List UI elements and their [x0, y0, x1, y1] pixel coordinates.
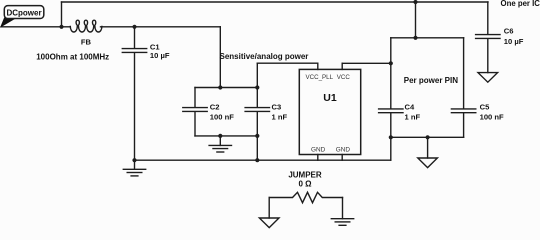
svg-text:JUMPER: JUMPER	[288, 171, 322, 180]
wire: power net from DCpower tail to ferrite bead	[1, 26, 70, 28]
capacitor C3	[256, 63, 258, 107]
svg-text:FB: FB	[81, 37, 92, 46]
svg-text:C1: C1	[150, 42, 160, 51]
svg-text:C5: C5	[480, 102, 490, 111]
svg-text:VCC: VCC	[337, 74, 351, 81]
svg-text:One per IC: One per IC	[501, 0, 540, 8]
capacitor C2	[194, 88, 196, 108]
wire: jumper left leg	[268, 198, 270, 219]
op-amp U1 (IC box)	[299, 69, 360, 154]
svg-text:C6: C6	[504, 27, 514, 36]
wire: riser down to C2/C3 top rail	[219, 27, 221, 88]
svg-text:GND: GND	[311, 147, 326, 154]
ground below C2/C3	[219, 136, 221, 146]
inductor FB	[70, 20, 102, 32]
capacitor C1	[134, 27, 136, 48]
svg-text:Sensitive/analog power: Sensitive/analog power	[220, 52, 309, 61]
svg-text:100 nF: 100 nF	[480, 112, 504, 121]
svg-text:C4: C4	[405, 102, 415, 111]
ground below jumper left	[259, 218, 279, 228]
capacitor C4	[379, 108, 403, 110]
ground below C6	[478, 73, 498, 83]
svg-text:C3: C3	[272, 102, 282, 111]
svg-text:100 nF: 100 nF	[210, 112, 234, 121]
wire: jumper right leg	[342, 198, 344, 219]
ground below jumper right	[331, 218, 353, 220]
svg-text:GND: GND	[336, 147, 351, 154]
svg-text:1 nF: 1 nF	[272, 112, 288, 121]
ground at bottom left	[134, 160, 136, 169]
svg-text:1 nF: 1 nF	[405, 112, 421, 121]
junction dots	[59, 25, 63, 29]
wire: ferrite bead output to Sensitive/analog riser	[101, 26, 221, 28]
wire: per-power-pin bottom rail	[391, 136, 464, 138]
wire: top rail (One per IC net)	[62, 1, 489, 3]
capacitor C6	[487, 2, 489, 34]
svg-text:DCpower: DCpower	[6, 8, 41, 17]
svg-text:10 µF: 10 µF	[150, 51, 170, 60]
wire: VCC_PLL pin wire	[257, 63, 318, 69]
wire: C2/C3 bottom rail	[195, 135, 257, 137]
svg-text:100Ohm at 100MHz: 100Ohm at 100MHz	[36, 52, 109, 61]
wire: C2/C3 top rail	[195, 87, 257, 89]
wire: VCC pin wire to C4 rail	[342, 62, 391, 64]
power flag DCpower	[1, 6, 44, 27]
wire: top rail riser at left	[61, 2, 63, 27]
wire: main bottom ground rail	[135, 159, 391, 161]
svg-text:C2: C2	[210, 102, 220, 111]
capacitor C5	[463, 38, 465, 109]
wire: per-power-pin top rail	[391, 37, 464, 39]
wire: riser from top rail to per-power-pin loop	[415, 2, 417, 38]
svg-text:0 Ω: 0 Ω	[298, 179, 312, 188]
svg-text:Per power PIN: Per power PIN	[404, 76, 458, 85]
wire: U1 GND pin stubs	[317, 155, 319, 161]
resistor JUMPER 0 ohm	[269, 192, 342, 202]
svg-text:VCC_PLL: VCC_PLL	[306, 74, 334, 81]
wire: per-power-pin loop left side (C4 branch)	[390, 38, 392, 109]
svg-text:10 µF: 10 µF	[504, 37, 524, 46]
svg-text:U1: U1	[323, 92, 337, 104]
ground below per-power-pin rail	[427, 137, 429, 158]
